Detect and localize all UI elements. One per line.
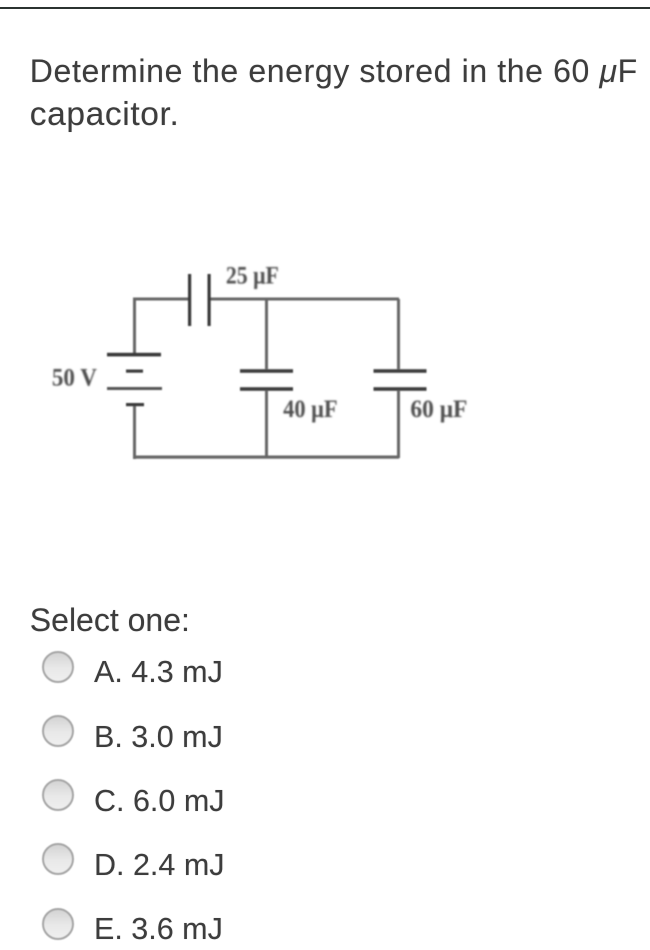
svg-text:60 μF: 60 μF xyxy=(410,396,467,423)
wire: right branch upper vertical xyxy=(397,299,400,369)
wire: bottom horizontal xyxy=(133,456,399,459)
question text xyxy=(30,50,638,136)
wire: middle branch upper vertical xyxy=(265,299,268,369)
option A xyxy=(0,651,650,687)
option E xyxy=(0,908,650,944)
wire: left vertical (top wire down to battery) xyxy=(133,299,136,355)
svg-text:40 μF: 40 μF xyxy=(283,396,338,423)
battery V1 long plate 2 xyxy=(107,387,162,390)
wire: right branch lower vertical xyxy=(397,390,400,458)
battery V1 long plate 1 xyxy=(107,353,161,357)
option B xyxy=(0,715,650,751)
svg-text:25 μF: 25 μF xyxy=(226,263,279,290)
prompt: Select one xyxy=(30,604,190,636)
capacitor C1 25uF left plate xyxy=(188,274,191,326)
capacitor C2 40uF bottom plate xyxy=(240,387,293,391)
option C xyxy=(0,779,650,815)
wire: middle branch lower vertical xyxy=(265,390,268,458)
wire: left vertical below battery xyxy=(133,406,136,459)
svg-text:50 V: 50 V xyxy=(52,365,97,392)
wire: top horizontal right segment (25uF right plate to right corner) xyxy=(210,298,399,301)
capacitor C1 25uF right plate xyxy=(208,274,211,326)
capacitor C2 40uF top plate xyxy=(240,369,293,373)
capacitor C3 60uF top plate xyxy=(374,369,427,373)
battery V1 short plate 2 xyxy=(126,403,144,406)
wire: top horizontal left segment (battery top to 25uF left plate) xyxy=(133,298,189,301)
top border bar xyxy=(0,7,650,10)
capacitor C3 60uF bottom plate xyxy=(374,387,427,391)
battery V1 short plate 1 xyxy=(126,370,143,373)
option D xyxy=(0,843,650,879)
